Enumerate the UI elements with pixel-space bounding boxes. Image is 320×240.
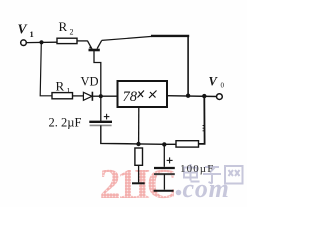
node A junction [39, 40, 43, 44]
wire V1 to node A [27, 41, 57, 43]
terminal V0 [217, 94, 223, 100]
wire R4 to ground [138, 165, 140, 182]
watermark hanzi dian [184, 164, 200, 182]
svg-text:VD: VD [81, 75, 99, 89]
node D junction (feedback tap) [202, 94, 206, 98]
regulator U1 78xx [118, 81, 168, 107]
wire node A down to R1 [40, 43, 52, 96]
svg-text:R: R [56, 79, 65, 94]
wire R2 to Q1 emitter [77, 40, 88, 42]
resistor R2 label [59, 19, 74, 37]
terminal V1 [21, 40, 27, 46]
wire VD to node B [92, 95, 101, 97]
node E junction [136, 142, 140, 146]
ground under C2 [154, 190, 174, 192]
wire ticks [203, 126, 204, 131]
svg-text:100µF: 100µF [180, 163, 214, 175]
capacitor C1 plus sign [104, 114, 110, 120]
watermark dot of .com [176, 190, 182, 196]
ground under R4 [132, 182, 145, 184]
svg-text:2: 2 [70, 28, 74, 37]
wire top rail from Q1 collector [102, 36, 152, 40]
capacitor C2 plus sign [167, 157, 173, 163]
watermark hanzi zi [203, 167, 221, 184]
svg-text:R: R [59, 19, 68, 34]
wire R3 to node F [164, 143, 176, 145]
capacitor C2 lead [163, 144, 165, 166]
diode VD [83, 92, 92, 101]
wire U1 gnd pin [138, 107, 140, 144]
node C junction (top rail meets output) [186, 94, 190, 98]
transistor Q1 [87, 40, 101, 50]
resistor R2 [57, 38, 77, 43]
wire node D down to R3 [199, 96, 205, 144]
capacitor C2 100uF [154, 167, 175, 169]
svg-text:2. 2µF: 2. 2µF [49, 116, 82, 130]
wire U1 output to V0 [167, 95, 217, 98]
wire R1 to VD [73, 95, 84, 97]
svg-text:78: 78 [123, 89, 138, 105]
svg-text:V: V [18, 22, 28, 37]
wire top rail down to output line [187, 36, 189, 96]
capacitor C1 2.2uF lead [100, 96, 102, 121]
capacitor C1 2.2uF [89, 121, 112, 123]
resistor R4 [135, 148, 143, 165]
resistor R1 [52, 93, 73, 99]
wire C2 bottom to ground [163, 174, 165, 190]
node V0 label [209, 75, 225, 90]
node V1 label [18, 22, 34, 40]
svg-text:1: 1 [30, 29, 34, 39]
wire node B to U1 [101, 95, 118, 97]
resistor R3 [176, 141, 199, 147]
wire Q1 base lead down to node B [94, 51, 101, 96]
resistor R1 label [56, 79, 71, 96]
wire C1 bottom to gnd rail [101, 125, 165, 144]
svg-text:0: 0 [221, 82, 225, 90]
node F junction [162, 142, 166, 146]
watermark hanzi wang [225, 166, 243, 184]
node B junction [99, 94, 103, 98]
